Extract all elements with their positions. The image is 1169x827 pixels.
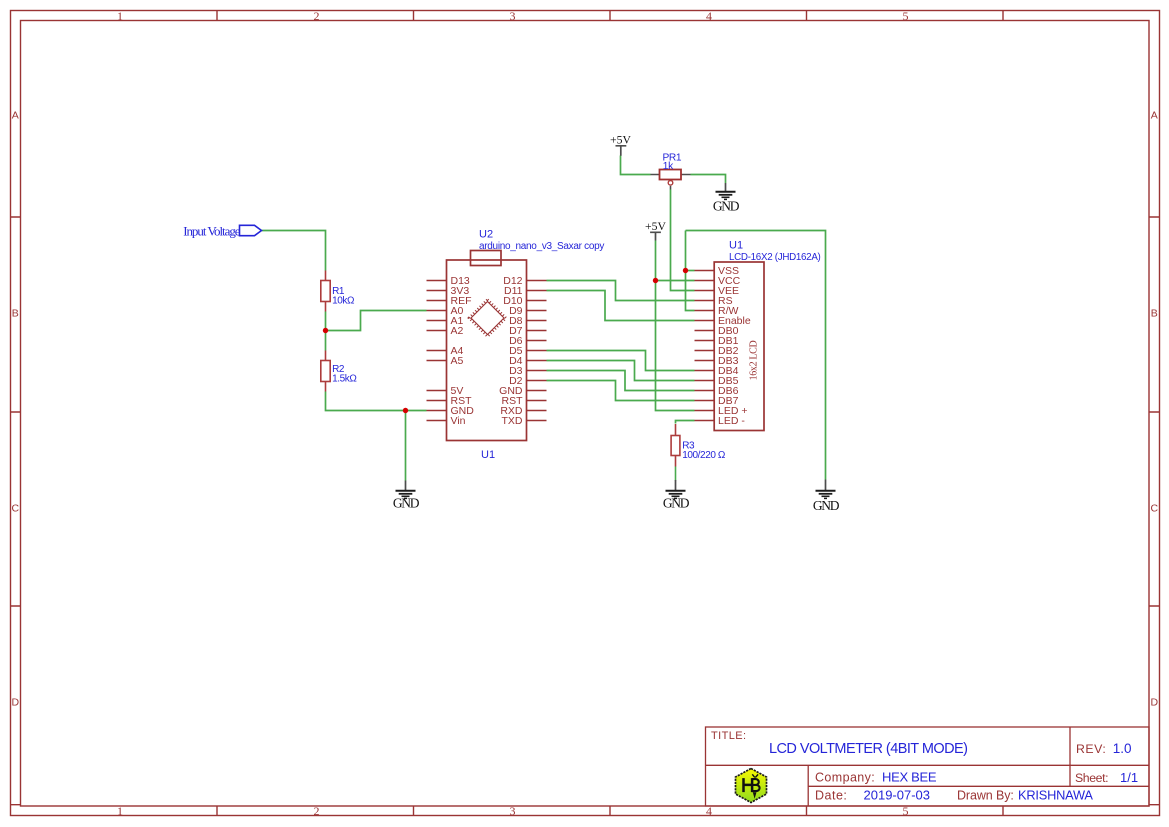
junction node at divider — [323, 328, 328, 333]
svg-text:100/220 Ω: 100/220 Ω — [682, 450, 726, 461]
svg-text:1: 1 — [117, 804, 123, 818]
border column numbers bottom — [117, 804, 909, 818]
wire: LCD LED- to R3 top — [676, 421, 695, 424]
svg-text:TXD: TXD — [502, 415, 523, 427]
svg-text:2: 2 — [314, 804, 320, 818]
border row letters left — [12, 110, 20, 709]
wire: divider node to A0 — [326, 311, 427, 331]
svg-text:LCD-16X2 (JHD162A): LCD-16X2 (JHD162A) — [729, 252, 821, 263]
border row ticks right — [1149, 217, 1160, 805]
wire: GND drop from node under arduino — [405, 411, 407, 481]
title block rev column divider — [1069, 727, 1071, 786]
wire: VSS/RW rail to right GND — [686, 231, 826, 480]
svg-text:GND: GND — [813, 498, 840, 513]
arduino left pin names — [451, 275, 475, 427]
wire: Input Voltage port to R1 top — [261, 231, 326, 271]
ground under R3 — [663, 480, 690, 510]
svg-text:D: D — [12, 697, 20, 709]
svg-text:3: 3 — [510, 804, 516, 818]
arduino usb block — [471, 251, 502, 266]
wire: D2 to DB7 — [547, 381, 695, 401]
junction node at arduino gnd — [403, 408, 408, 413]
svg-text:U1: U1 — [729, 240, 743, 252]
svg-text:GND: GND — [713, 198, 740, 213]
svg-text:10kΩ: 10kΩ — [332, 296, 355, 307]
wire: GND rail to LCD R/W — [686, 231, 695, 311]
svg-text:B: B — [12, 308, 19, 320]
svg-text:Drawn By:: Drawn By: — [957, 789, 1014, 803]
wire: +5V no1 to PR1 left terminal — [621, 156, 651, 175]
arduino right pin names — [499, 275, 523, 427]
svg-text:GND: GND — [393, 495, 420, 510]
ground right of LCD — [813, 480, 840, 514]
svg-text:A5: A5 — [451, 355, 464, 367]
svg-text:1.5kΩ: 1.5kΩ — [332, 374, 357, 385]
svg-text:Date:: Date: — [815, 789, 847, 803]
wire: D11 to Enable — [547, 291, 695, 321]
border column ticks top — [217, 11, 1003, 21]
svg-text:A2: A2 — [451, 325, 464, 337]
logo letter B — [752, 779, 759, 791]
logo letter H — [744, 778, 753, 792]
border column ticks bottom — [217, 806, 1003, 816]
svg-text:LCD VOLTMETER (4BIT MODE): LCD VOLTMETER (4BIT MODE) — [769, 741, 967, 757]
lcd pin names — [718, 265, 751, 427]
svg-text:arduino_nano_v3_Saxar copy: arduino_nano_v3_Saxar copy — [479, 241, 604, 252]
ground under arduino — [393, 481, 420, 511]
resistor R1 — [321, 271, 355, 312]
svg-text:TITLE:: TITLE: — [711, 730, 746, 742]
svg-text:2: 2 — [314, 9, 320, 23]
potentiometer PR1 — [651, 152, 691, 189]
svg-text:Input Voltage: Input Voltage — [183, 223, 241, 238]
port Input Voltage — [183, 223, 261, 238]
power +5V no2 — [645, 220, 666, 241]
svg-text:3: 3 — [510, 9, 516, 23]
svg-text:C: C — [12, 503, 20, 515]
svg-text:Company:: Company: — [815, 771, 875, 785]
svg-text:U1: U1 — [481, 449, 495, 461]
logo stinger — [753, 792, 757, 798]
svg-text:REV:: REV: — [1076, 742, 1106, 756]
svg-text:2019-07-03: 2019-07-03 — [864, 788, 931, 803]
wire: PR1 right terminal to GND — [691, 175, 726, 184]
wire: R1 bottom to R2 top through divider node — [325, 312, 327, 351]
arduino chip diamond — [469, 300, 506, 337]
arduino left pins — [427, 281, 447, 421]
svg-text:B: B — [1151, 308, 1158, 320]
svg-text:A: A — [1151, 110, 1158, 122]
border column numbers top — [117, 9, 909, 23]
svg-text:1: 1 — [117, 9, 123, 23]
wire: R2 bottom to Arduino GND pin — [326, 392, 427, 411]
svg-text:U2: U2 — [479, 229, 493, 241]
junction node at vss — [683, 268, 688, 273]
wire: D3 to DB6 — [547, 371, 695, 391]
border row letters right — [1151, 110, 1159, 709]
ground under PR1 — [713, 183, 740, 213]
svg-text:+5V: +5V — [645, 220, 666, 233]
wire: D12 to RS — [547, 281, 695, 301]
svg-text:HEX BEE: HEX BEE — [882, 770, 937, 785]
svg-text:D: D — [1151, 697, 1159, 709]
company logo hexagon — [736, 769, 767, 803]
title block logo cell divider — [807, 765, 809, 806]
junction node at vcc — [653, 278, 658, 283]
svg-text:16x2 LCD: 16x2 LCD — [748, 341, 759, 381]
wire: GND node to LCD VSS — [686, 270, 695, 272]
border row ticks left — [11, 217, 21, 805]
svg-text:1/1: 1/1 — [1120, 770, 1138, 785]
svg-text:1.0: 1.0 — [1113, 741, 1132, 756]
wire: R3 bottom to GND — [675, 467, 677, 481]
svg-text:4: 4 — [706, 9, 712, 23]
wire: PR1 wiper to LCD VEE — [671, 190, 695, 291]
svg-text:GND: GND — [663, 495, 690, 510]
wire: D5 to DB4 — [547, 351, 695, 371]
title block outline — [706, 727, 1150, 806]
arduino U2 body — [447, 260, 527, 441]
power +5V no1 — [610, 134, 631, 156]
title block row divider 2 — [808, 785, 1149, 787]
svg-text:LED -: LED - — [718, 415, 745, 427]
wire: D4 to DB5 — [547, 361, 695, 381]
svg-text:Sheet:: Sheet: — [1075, 771, 1108, 785]
lcd pins — [695, 271, 715, 421]
svg-text:Vin: Vin — [451, 415, 466, 427]
lcd body — [714, 262, 764, 431]
wire: +5V node to LCD VCC — [656, 280, 695, 282]
resistor R3 — [671, 424, 726, 467]
svg-text:5: 5 — [903, 9, 909, 23]
svg-text:1k: 1k — [663, 161, 674, 172]
svg-text:+5V: +5V — [610, 134, 631, 147]
svg-text:A: A — [12, 110, 19, 122]
svg-text:KRISHNAWA: KRISHNAWA — [1018, 788, 1093, 803]
svg-text:C: C — [1151, 503, 1159, 515]
wire: +5V no2 rail to LCD LED+ — [656, 241, 695, 411]
logo antennae — [752, 774, 758, 777]
title block row divider 1 — [706, 764, 1150, 766]
resistor R2 — [321, 351, 358, 392]
arduino right pins — [527, 281, 547, 421]
